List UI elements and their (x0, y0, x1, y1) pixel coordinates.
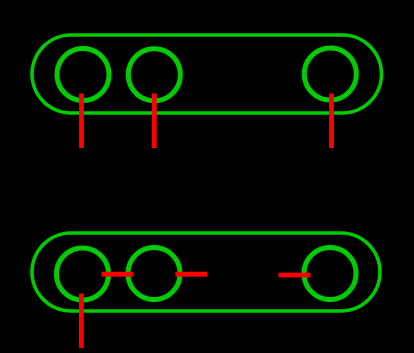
top red tick 1 (79, 94, 84, 149)
bottom circle 2 (128, 248, 180, 300)
top circle 1 (57, 49, 109, 101)
bottom circle 1 (57, 248, 109, 300)
bottom stadium outline (32, 233, 380, 311)
bottom circle 3 (304, 248, 356, 300)
top stadium outline (32, 35, 382, 113)
bottom red horizontal tick C (279, 273, 311, 278)
bottom red horizontal tick A (102, 272, 134, 277)
bottom red vertical tick (79, 294, 84, 349)
top red tick 2 (152, 94, 157, 149)
top circle 3 (304, 48, 356, 100)
top red tick 3 (329, 94, 334, 149)
top circle 2 (128, 49, 180, 101)
bottom red horizontal tick B (175, 272, 207, 277)
